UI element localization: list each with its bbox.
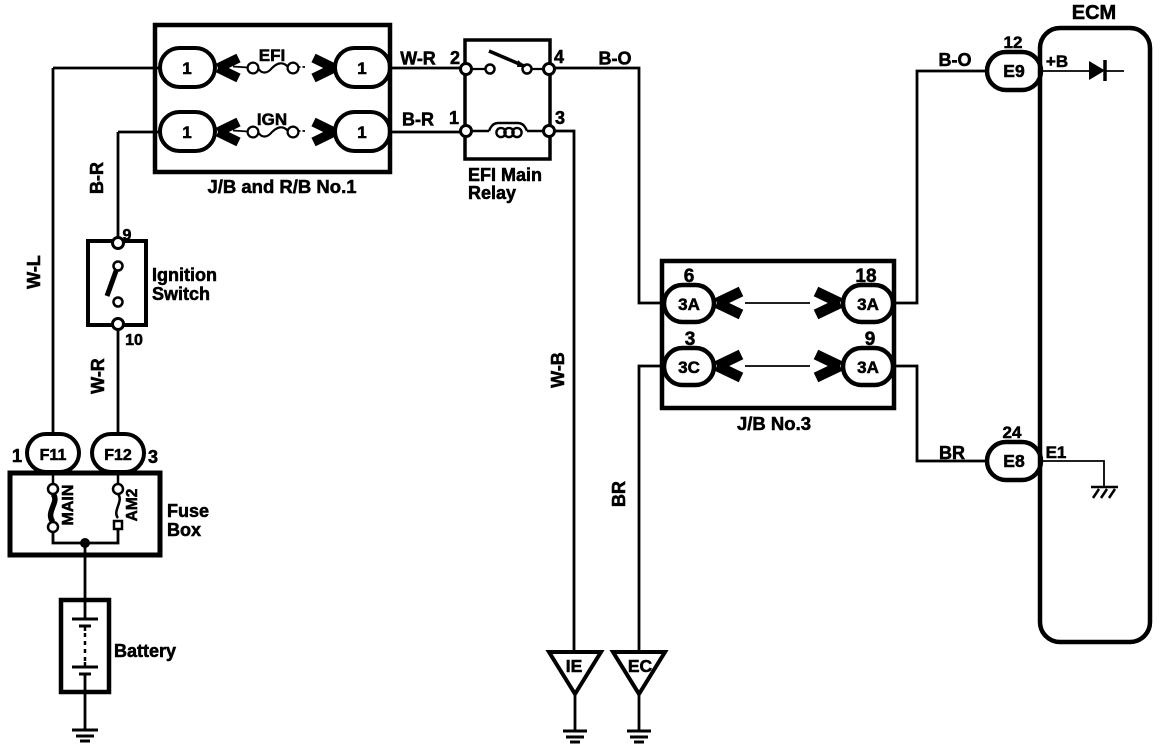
- svg-text:3A: 3A: [678, 295, 700, 314]
- arrow right (top row): [816, 292, 840, 315]
- wire E8 to chassis ground: [1042, 461, 1104, 487]
- ignition switch inner contact bottom: [114, 298, 123, 307]
- junction box J/B No.3: [662, 261, 894, 408]
- svg-text:AM2: AM2: [124, 489, 141, 522]
- wire B-R left horizontal from IGN left: [118, 131, 162, 134]
- arrow left (bottom row): [717, 355, 741, 378]
- connector oval 1 (EFI row left): [160, 48, 215, 87]
- svg-text:EC: EC: [628, 656, 653, 676]
- wire between arrows (top row): [745, 302, 810, 304]
- svg-text:F12: F12: [104, 447, 132, 464]
- wire B-O from relay pin 4 to J/B No.3 pin 6: [554, 68, 662, 303]
- arrow right (bottom row): [816, 355, 840, 378]
- connector F11: [27, 434, 79, 472]
- svg-text:9: 9: [123, 227, 132, 244]
- relay EFI Main Relay box: [465, 40, 550, 159]
- svg-text:Switch: Switch: [152, 284, 210, 304]
- connector oval 1 (IGN row right): [335, 112, 390, 151]
- ground triangle EC: [613, 652, 665, 694]
- svg-text:B-O: B-O: [939, 50, 972, 70]
- connector E9: [987, 52, 1041, 90]
- svg-text:9: 9: [865, 329, 876, 350]
- wire AM2 fuse to junction: [85, 529, 118, 543]
- arrow left (top row): [717, 292, 741, 315]
- junction box J/B and R/B No.1: [155, 25, 390, 172]
- svg-text:W-R: W-R: [88, 358, 108, 394]
- relay switch contact b: [523, 65, 532, 74]
- relay pin 1: [461, 126, 472, 137]
- svg-text:E8: E8: [1003, 451, 1025, 471]
- arrow right (EFI row): [314, 58, 335, 78]
- svg-text:EFI: EFI: [259, 46, 285, 65]
- arrow left (IGN row): [218, 122, 239, 142]
- connector oval 3C pin 3: [664, 348, 714, 385]
- relay coil: [466, 123, 549, 137]
- svg-text:J/B No.3: J/B No.3: [737, 413, 811, 434]
- svg-text:BR: BR: [609, 481, 629, 507]
- fuse box: [10, 473, 160, 555]
- ignition switch lever: [107, 271, 116, 296]
- ECM box: [1040, 28, 1150, 642]
- wire junction to battery: [84, 543, 87, 619]
- svg-text:B-R: B-R: [402, 110, 434, 130]
- relay pin 4: [544, 64, 555, 75]
- diode D1: [1089, 61, 1105, 80]
- svg-text:1: 1: [449, 108, 459, 128]
- svg-text:Relay: Relay: [468, 183, 516, 203]
- wire BR from J/B No.3 pin 3 to EC: [639, 366, 662, 652]
- relay pin 2: [461, 64, 472, 75]
- svg-text:B-O: B-O: [599, 49, 632, 69]
- relay switch lever: [489, 51, 524, 66]
- connector oval 1 (EFI row right): [335, 48, 390, 87]
- relay pin 3: [544, 126, 555, 137]
- svg-text:6: 6: [684, 266, 695, 287]
- arrow right (IGN row): [314, 122, 335, 142]
- connector oval 3A pin 6: [664, 285, 714, 322]
- battery plates: [72, 619, 98, 674]
- junction dot: [80, 538, 90, 548]
- svg-text:IGN: IGN: [257, 110, 287, 129]
- svg-text:1: 1: [357, 123, 366, 142]
- svg-text:IE: IE: [566, 656, 583, 676]
- wire W-B from relay pin 3 to IE: [554, 131, 574, 652]
- chassis ground (E1): [1091, 487, 1118, 498]
- fuse IGN: [233, 127, 307, 138]
- svg-text:18: 18: [855, 266, 876, 287]
- wire between arrows (bottom row): [745, 365, 810, 367]
- svg-text:F11: F11: [40, 447, 67, 464]
- wire W-R from pin 10 to F12: [117, 329, 120, 436]
- svg-text:2: 2: [450, 48, 460, 68]
- svg-text:BR: BR: [939, 443, 965, 463]
- connector E8: [987, 442, 1041, 480]
- relay switch contact a: [486, 65, 495, 74]
- wire W-R from J/B No.1 to relay pin 2: [388, 67, 461, 70]
- svg-text:ECM: ECM: [1072, 2, 1116, 24]
- svg-text:1: 1: [357, 59, 366, 78]
- wire IE to ground: [574, 694, 577, 731]
- ignition switch pin 10: [113, 319, 124, 330]
- svg-text:1: 1: [182, 59, 191, 78]
- connector F12: [92, 434, 144, 472]
- svg-text:W-L: W-L: [24, 255, 44, 289]
- svg-text:24: 24: [1003, 423, 1022, 442]
- battery box: [61, 600, 109, 692]
- ground (EC): [627, 731, 651, 742]
- relay internal wire contact to pin4: [531, 68, 549, 70]
- connector oval 3A pin 18: [843, 285, 893, 322]
- svg-text:3: 3: [685, 329, 696, 350]
- wire battery to ground: [84, 674, 87, 730]
- svg-text:3A: 3A: [857, 295, 879, 314]
- wire B-R from J/B No.1 to relay pin 1: [388, 131, 461, 134]
- svg-text:4: 4: [554, 47, 564, 67]
- svg-text:Fuse: Fuse: [167, 501, 209, 521]
- svg-text:+B: +B: [1046, 52, 1068, 71]
- svg-text:3: 3: [148, 447, 158, 467]
- connector oval 1 (IGN row left): [160, 112, 215, 151]
- ignition switch inner contact top: [114, 262, 123, 271]
- fuse EFI: [233, 63, 307, 74]
- svg-text:10: 10: [125, 332, 143, 349]
- arrow left (EFI row): [218, 58, 239, 78]
- svg-text:W-R: W-R: [400, 49, 436, 69]
- switch Ignition Switch box: [88, 241, 146, 325]
- svg-text:Battery: Battery: [114, 641, 176, 661]
- svg-text:1: 1: [182, 123, 191, 142]
- ignition switch pin 9: [113, 238, 124, 249]
- ground (IE): [563, 731, 587, 742]
- wire W-L horizontal from EFI left: [53, 67, 162, 70]
- wire EC to ground: [638, 694, 641, 731]
- ground triangle IE: [549, 652, 601, 694]
- svg-text:E1: E1: [1046, 443, 1067, 462]
- wire after diode: [1105, 70, 1124, 72]
- wire MAIN fuse to junction: [53, 532, 85, 543]
- wire BR from pin 9 to E8: [893, 366, 988, 461]
- relay internal wire pin2 to contact: [466, 68, 486, 70]
- connector oval 3A pin 9: [843, 348, 893, 385]
- svg-text:3: 3: [555, 108, 565, 128]
- fuse MAIN: [48, 472, 58, 532]
- ground (battery): [72, 730, 98, 741]
- wire E9 to diode: [1042, 70, 1089, 72]
- svg-text:3C: 3C: [678, 358, 700, 377]
- wire B-R left vertical: [117, 132, 120, 240]
- svg-text:Box: Box: [167, 520, 201, 540]
- wire B-O from pin 18 to E9: [893, 71, 987, 303]
- svg-text:EFI Main: EFI Main: [468, 165, 542, 185]
- svg-text:1: 1: [12, 445, 22, 466]
- svg-text:3A: 3A: [857, 358, 879, 377]
- svg-text:MAIN: MAIN: [60, 485, 77, 526]
- svg-text:B-R: B-R: [87, 162, 107, 194]
- svg-text:J/B and R/B No.1: J/B and R/B No.1: [207, 176, 356, 197]
- svg-text:W-B: W-B: [548, 352, 568, 388]
- svg-text:Ignition: Ignition: [152, 265, 217, 285]
- fuse AM2: [113, 472, 123, 529]
- wire W-L vertical: [52, 68, 55, 436]
- svg-text:12: 12: [1004, 33, 1023, 52]
- svg-text:E9: E9: [1003, 61, 1025, 81]
